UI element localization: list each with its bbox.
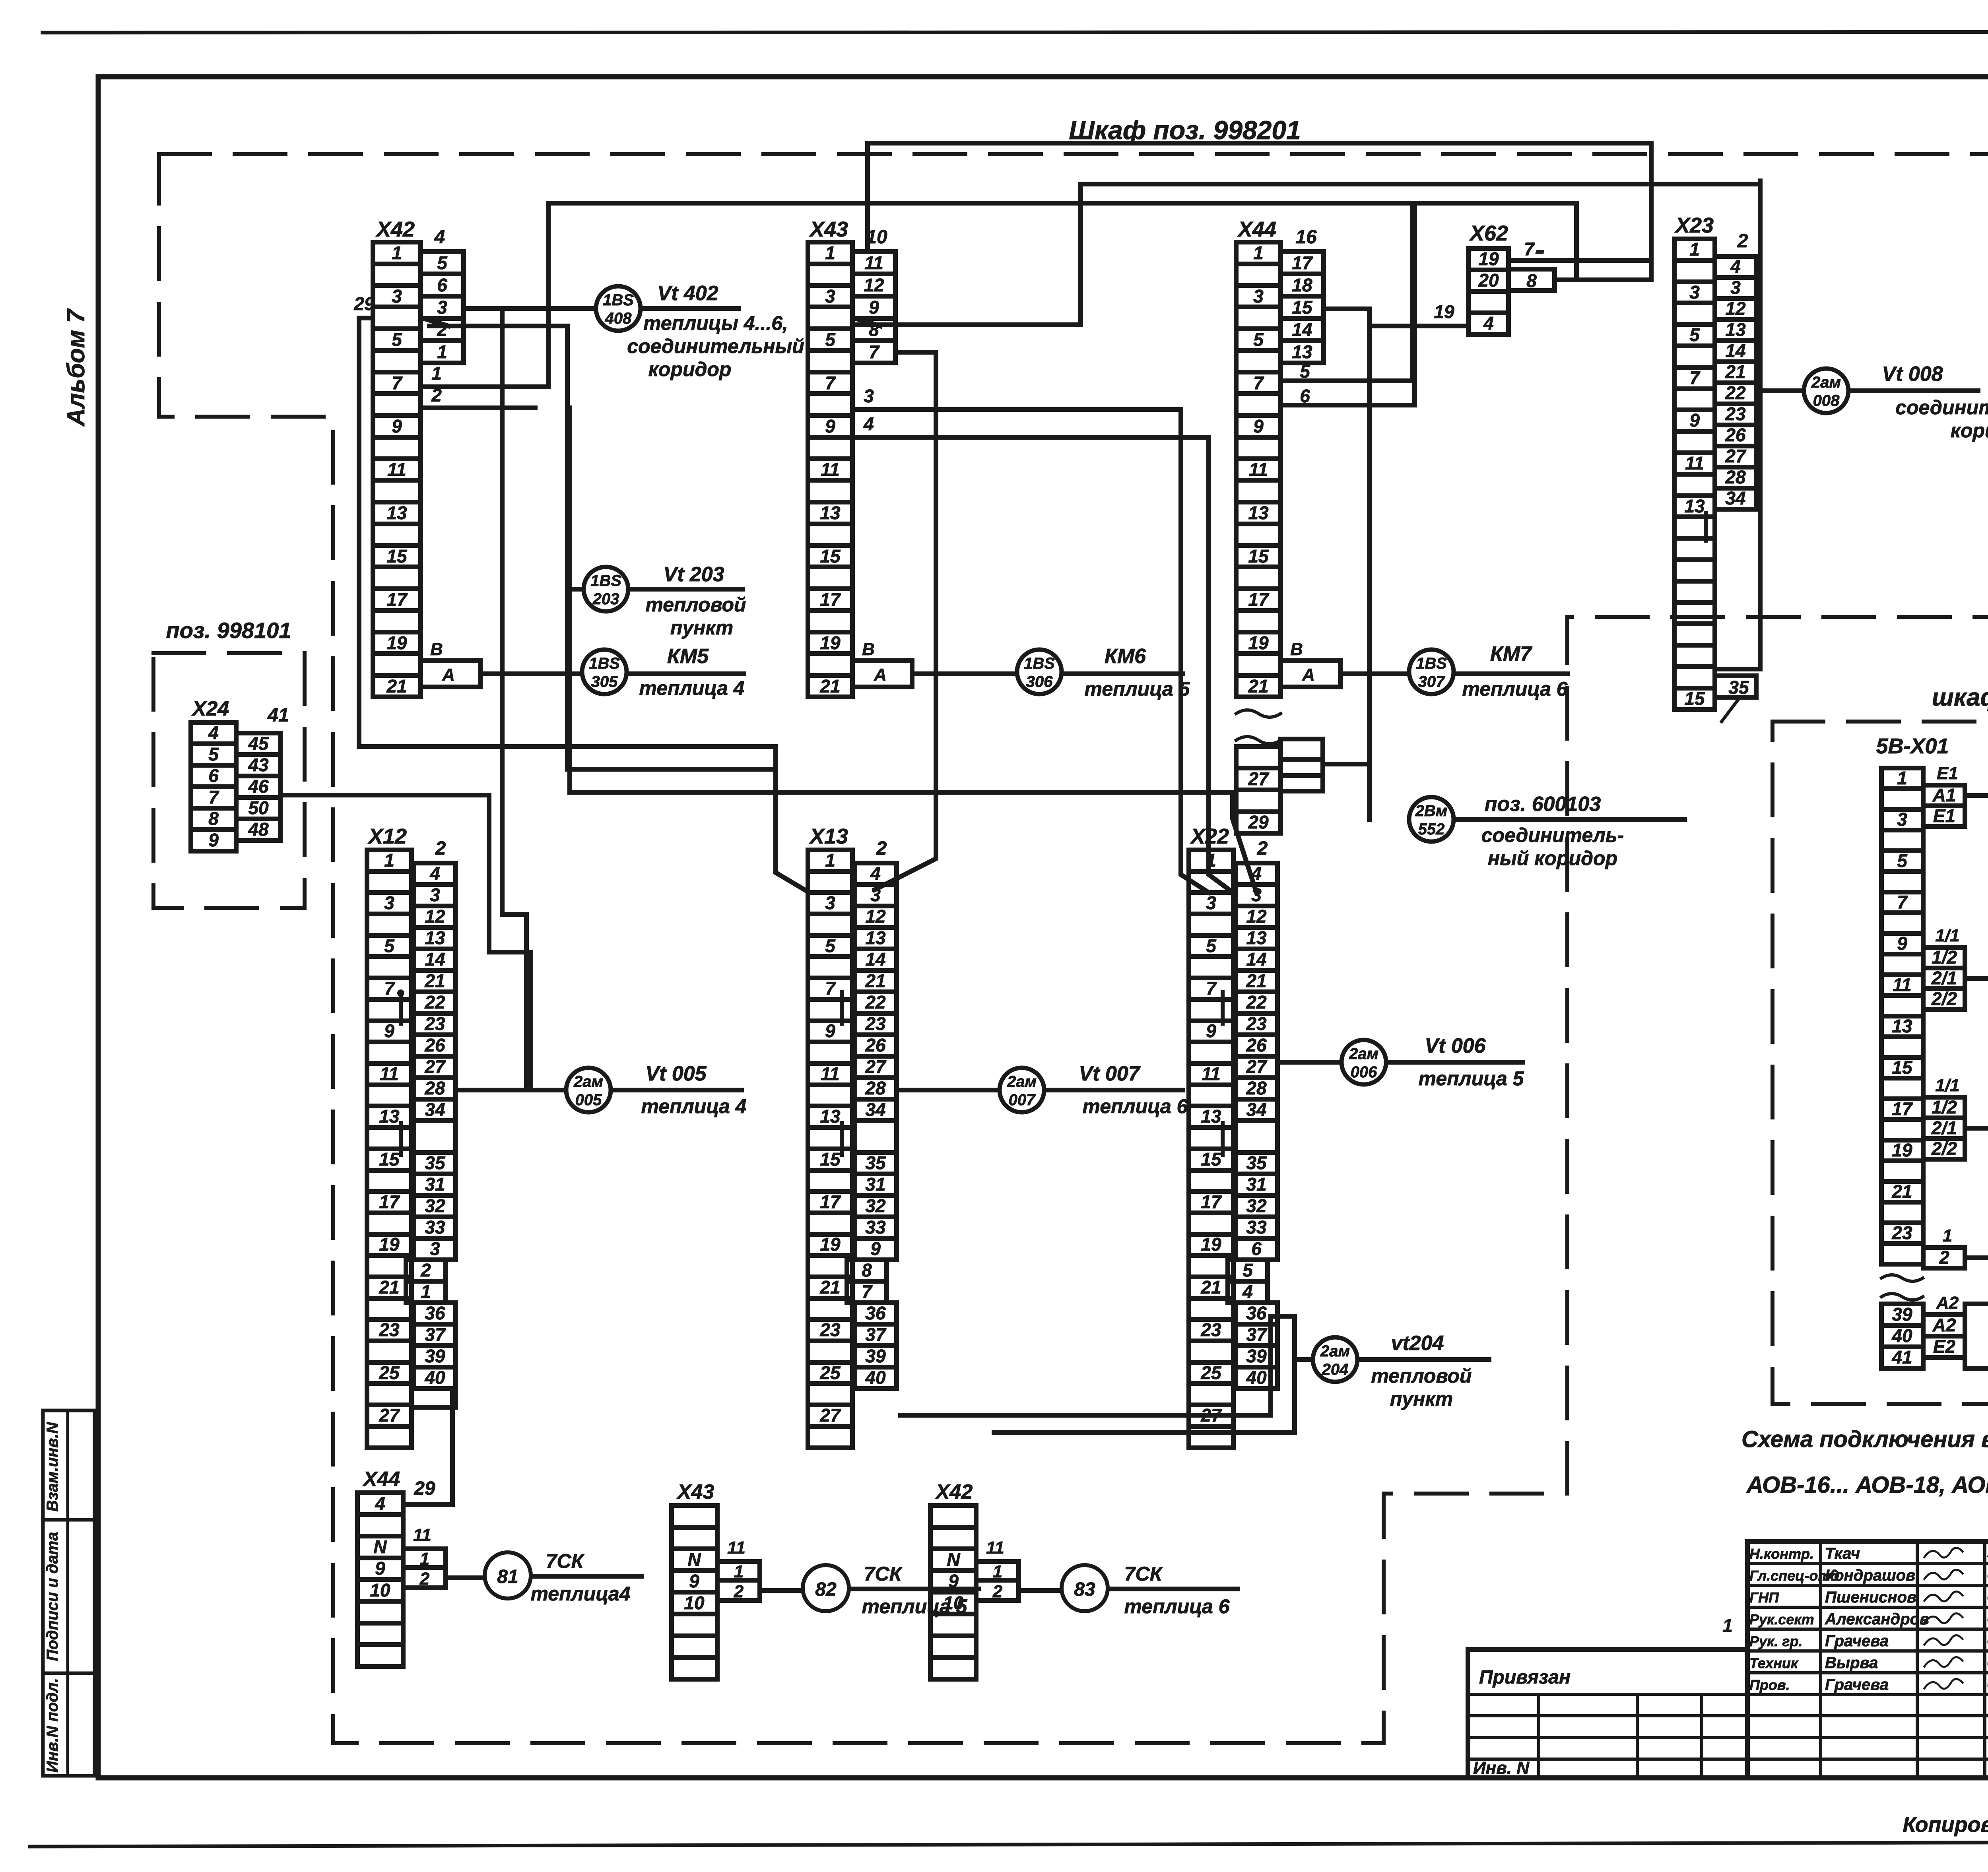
svg-text:83: 83 <box>1074 1579 1095 1600</box>
svg-text:25: 25 <box>819 1362 841 1383</box>
svg-text:В: В <box>430 640 443 659</box>
svg-text:5: 5 <box>1689 324 1700 345</box>
svg-text:7: 7 <box>384 978 395 999</box>
svg-text:5: 5 <box>1253 329 1264 350</box>
svg-text:7: 7 <box>392 372 403 393</box>
svg-text:Рук. гр.: Рук. гр. <box>1749 1633 1803 1649</box>
svg-text:19: 19 <box>820 1234 841 1255</box>
connection circle 2ам008 <box>1804 369 1848 413</box>
svg-text:31: 31 <box>1246 1174 1266 1195</box>
svg-text:34: 34 <box>1246 1099 1266 1120</box>
svg-text:11: 11 <box>821 459 840 480</box>
terminal block X22 left column <box>1189 850 1233 1448</box>
svg-text:Шкаф поз. 998201: Шкаф поз. 998201 <box>1069 115 1301 145</box>
svg-text:19: 19 <box>820 632 841 653</box>
svg-text:9: 9 <box>825 1020 835 1041</box>
X43 bottom connector box 1 2 <box>717 1562 760 1601</box>
svg-text:5: 5 <box>1206 935 1217 956</box>
wire X62 row7 <box>1508 258 1651 263</box>
svg-text:соединительный: соединительный <box>1895 396 1988 419</box>
svg-text:13: 13 <box>1684 496 1705 516</box>
wire riser down to X13 <box>776 747 809 892</box>
svg-text:1: 1 <box>825 850 835 871</box>
wire after 1BS307 and label KM7 <box>1454 642 1568 700</box>
svg-text:23: 23 <box>379 1319 400 1340</box>
svg-text:Взам.инв.N: Взам.инв.N <box>44 1422 61 1511</box>
svg-text:Пшениснов: Пшениснов <box>1825 1589 1916 1606</box>
svg-text:23: 23 <box>1725 403 1746 424</box>
svg-text:2Вм: 2Вм <box>1415 802 1448 820</box>
svg-text:2: 2 <box>435 838 446 859</box>
wire to circle 83 <box>1019 1588 1061 1593</box>
X42 bottom connector box 1 2 <box>976 1562 1019 1601</box>
svg-text:Е1: Е1 <box>1933 805 1955 826</box>
svg-text:4: 4 <box>1730 256 1741 277</box>
svg-text:соединитель-: соединитель- <box>1481 824 1624 846</box>
svg-text:КМ7: КМ7 <box>1490 642 1532 665</box>
svg-text:27: 27 <box>424 1056 446 1077</box>
X23 jumper mark at 13 <box>1704 513 1708 541</box>
svg-text:17: 17 <box>820 589 841 610</box>
svg-text:11: 11 <box>380 1063 399 1084</box>
svg-text:3: 3 <box>430 1238 440 1259</box>
svg-text:X44: X44 <box>362 1468 400 1491</box>
svg-text:12: 12 <box>1725 298 1746 319</box>
wire X12 to 2ам005 <box>456 1088 566 1092</box>
svg-text:11: 11 <box>1685 453 1704 473</box>
wire X12 bottom to 29 riser <box>403 1389 452 1505</box>
svg-text:36: 36 <box>865 1303 886 1323</box>
wire riser from Vt402 wire down left <box>502 308 526 1090</box>
svg-text:12: 12 <box>864 275 884 295</box>
svg-text:28: 28 <box>1725 467 1746 487</box>
svg-text:N: N <box>687 1549 701 1570</box>
svg-text:X22: X22 <box>1190 824 1229 848</box>
svg-text:15: 15 <box>820 1149 841 1170</box>
svg-text:19: 19 <box>1892 1140 1912 1160</box>
X44 bottom connector box 1 2 <box>403 1549 446 1589</box>
svg-text:39: 39 <box>425 1346 445 1366</box>
svg-text:33: 33 <box>865 1217 886 1238</box>
wire after 1BS305 and label KM5 <box>627 645 744 699</box>
wire row 2 of X42 <box>421 385 535 408</box>
svg-text:43: 43 <box>248 755 269 775</box>
svg-text:X13: X13 <box>809 824 848 848</box>
svg-text:45: 45 <box>248 733 269 754</box>
svg-text:203: 203 <box>592 590 619 608</box>
svg-text:36: 36 <box>1246 1303 1267 1323</box>
svg-text:14: 14 <box>1246 949 1266 970</box>
svg-text:25: 25 <box>1200 1362 1222 1383</box>
wire into 1BS203 <box>570 587 583 592</box>
svg-text:8: 8 <box>208 808 219 829</box>
svg-text:13: 13 <box>1725 319 1746 340</box>
X42 twisted pair notch <box>422 318 448 326</box>
svg-text:19: 19 <box>1248 632 1269 653</box>
left margin column boxes <box>43 1410 95 1776</box>
svg-text:X43: X43 <box>809 217 848 241</box>
title block staff names <box>1749 1545 1988 1694</box>
svg-text:14: 14 <box>1292 319 1312 340</box>
X01 right cells group 1/2 2/1 2/2 upper <box>1923 947 1965 1009</box>
wire after 2ам007 and label Vt007 <box>1044 1062 1188 1117</box>
svg-text:7СК: 7СК <box>546 1550 585 1572</box>
wire row 6 of X44 <box>1281 386 1415 406</box>
connection circle 1BS408 <box>596 286 641 331</box>
svg-text:12: 12 <box>1246 906 1267 927</box>
terminal block X13 left column <box>808 850 852 1448</box>
X01 bus connecting stubs <box>1965 795 1988 1258</box>
svg-text:2: 2 <box>734 1582 744 1601</box>
wires X22 bottom routing <box>901 1316 1295 1432</box>
svg-text:21: 21 <box>386 676 407 696</box>
X44 ladder break wavy lines <box>1236 710 1281 717</box>
svg-text:19: 19 <box>386 632 407 653</box>
svg-text:40: 40 <box>1891 1325 1912 1346</box>
connection circle 2ам204 <box>1313 1337 1357 1382</box>
svg-text:X42: X42 <box>935 1480 973 1503</box>
svg-text:35: 35 <box>865 1152 886 1173</box>
svg-text:5: 5 <box>437 252 448 273</box>
svg-text:шкаф поз. 990101: шкаф поз. 990101 <box>1932 684 1988 711</box>
svg-text:11: 11 <box>1202 1063 1221 1084</box>
svg-text:теплица4: теплица4 <box>530 1583 630 1605</box>
wire 29 vertical <box>359 318 776 747</box>
svg-text:21: 21 <box>424 970 445 991</box>
svg-text:Привязан: Привязан <box>1479 1667 1571 1688</box>
svg-text:22: 22 <box>1246 992 1267 1013</box>
svg-text:Е2: Е2 <box>1933 1336 1956 1357</box>
wire X44 cell15 riser to 552 <box>1324 309 1369 819</box>
svg-text:10: 10 <box>684 1593 705 1613</box>
wire X13 to 2ам007 <box>897 1088 999 1092</box>
wire riser to 2ам204 <box>1295 1360 1312 1432</box>
terminal block X42 bottom <box>930 1505 976 1679</box>
svg-text:39: 39 <box>865 1346 886 1366</box>
svg-text:17: 17 <box>1892 1098 1913 1119</box>
svg-text:9: 9 <box>375 1558 385 1579</box>
svg-text:17: 17 <box>820 1191 841 1212</box>
svg-text:1: 1 <box>1897 768 1907 788</box>
connection circle 1BS307 <box>1409 650 1454 694</box>
svg-text:18: 18 <box>1292 275 1312 295</box>
X43 twisted pair notch <box>854 318 880 326</box>
svg-text:1: 1 <box>1206 850 1216 871</box>
svg-text:27: 27 <box>1248 768 1270 789</box>
svg-text:34: 34 <box>865 1099 885 1120</box>
terminal block X24 left column <box>191 722 236 851</box>
svg-text:11: 11 <box>1249 459 1268 480</box>
svg-text:11: 11 <box>821 1063 840 1084</box>
connection circle 1BS305 <box>582 650 627 694</box>
svg-text:Техник: Техник <box>1749 1655 1799 1671</box>
svg-text:Грачева: Грачева <box>1825 1632 1889 1650</box>
svg-text:15: 15 <box>820 546 841 566</box>
svg-text:1: 1 <box>420 1549 429 1569</box>
svg-text:1: 1 <box>1253 242 1264 263</box>
X44 A-B connector box <box>1281 640 1340 687</box>
svg-text:14: 14 <box>1725 340 1745 361</box>
svg-text:27: 27 <box>1246 1056 1268 1077</box>
X44 right column cells 17 18 15 14 13 <box>1281 252 1324 363</box>
svg-text:3: 3 <box>392 286 402 307</box>
svg-text:21: 21 <box>1246 970 1266 991</box>
svg-text:32: 32 <box>1246 1195 1267 1216</box>
svg-text:9: 9 <box>870 1238 881 1259</box>
wire X23 box to 2ам008 <box>1760 388 1804 393</box>
svg-text:5: 5 <box>825 935 836 956</box>
svg-text:Инв. N: Инв. N <box>1473 1758 1530 1778</box>
svg-text:40: 40 <box>865 1367 886 1388</box>
svg-text:21: 21 <box>379 1277 399 1298</box>
svg-text:13: 13 <box>1201 1106 1221 1127</box>
svg-text:Vt 402: Vt 402 <box>657 282 718 305</box>
svg-text:17: 17 <box>1201 1191 1222 1212</box>
wire X42 cell3 to circle 1BS408 <box>464 306 596 311</box>
svg-text:13: 13 <box>865 927 886 948</box>
svg-text:2: 2 <box>1257 838 1268 859</box>
X43 A-B connector box <box>852 640 912 687</box>
svg-text:тепловой: тепловой <box>1371 1365 1472 1387</box>
svg-text:29: 29 <box>1248 812 1269 832</box>
svg-text:1ВS: 1ВS <box>1416 655 1447 672</box>
svg-text:15: 15 <box>1201 1149 1222 1170</box>
svg-text:3: 3 <box>825 892 835 913</box>
svg-text:1ВS: 1ВS <box>603 291 634 309</box>
svg-text:46: 46 <box>248 776 269 797</box>
svg-text:37: 37 <box>865 1324 887 1345</box>
svg-text:1/2: 1/2 <box>1932 1097 1957 1117</box>
X23 right cell 35 <box>1715 676 1756 698</box>
wire row 5 of X44 <box>1281 361 1413 382</box>
svg-text:3: 3 <box>1251 885 1262 905</box>
terminal block X62 <box>1468 248 1508 334</box>
svg-text:21: 21 <box>819 676 840 696</box>
connection circle 2ам007 <box>1000 1068 1044 1112</box>
connection circle 2Вм552 <box>1409 797 1454 842</box>
X12 right column <box>406 863 456 1389</box>
svg-text:1: 1 <box>825 242 835 263</box>
svg-text:2/1: 2/1 <box>1931 968 1957 988</box>
svg-text:23: 23 <box>1246 1013 1267 1034</box>
svg-text:ГНП: ГНП <box>1749 1589 1779 1606</box>
wire after 1BS203 and label Vt203 <box>629 563 746 639</box>
svg-text:11: 11 <box>864 252 883 273</box>
svg-text:23: 23 <box>1200 1319 1221 1340</box>
svg-text:КМ5: КМ5 <box>667 645 709 668</box>
svg-text:7: 7 <box>869 341 880 362</box>
svg-text:3: 3 <box>1206 892 1216 913</box>
svg-text:11: 11 <box>387 459 406 480</box>
svg-text:3: 3 <box>864 386 874 406</box>
svg-text:4: 4 <box>1251 863 1262 884</box>
svg-text:10: 10 <box>943 1593 964 1613</box>
svg-text:13: 13 <box>1292 341 1312 362</box>
svg-text:17: 17 <box>1292 252 1313 273</box>
wire after 81 and label 7СК <box>530 1550 642 1605</box>
wire row 4 of X43 <box>852 413 1209 437</box>
dashed cabinet шкаф поз.990101 outline <box>1773 722 1988 1404</box>
svg-text:22: 22 <box>865 992 886 1013</box>
svg-text:27: 27 <box>865 1056 887 1077</box>
svg-text:552: 552 <box>1418 821 1445 838</box>
svg-text:26: 26 <box>865 1035 886 1055</box>
X01 right column top cells А1 Е1 <box>1923 785 1965 826</box>
svg-text:1: 1 <box>1943 1226 1952 1245</box>
X23 right column cells <box>1715 256 1756 509</box>
svg-text:9: 9 <box>208 830 219 850</box>
svg-text:305: 305 <box>591 673 618 691</box>
wire X44 A box to 1BS307 <box>1340 671 1409 676</box>
svg-text:48: 48 <box>248 819 269 840</box>
svg-text:Пров.: Пров. <box>1749 1677 1790 1693</box>
terminal block X43 bottom <box>672 1505 717 1679</box>
svg-text:Рук.сект: Рук.сект <box>1749 1611 1814 1628</box>
svg-text:204: 204 <box>1322 1361 1349 1378</box>
svg-text:X12: X12 <box>367 824 407 848</box>
X24 right column <box>236 733 280 840</box>
X22 jumper marks <box>1221 992 1225 1155</box>
X01 right cell 2 <box>1923 1247 1965 1268</box>
svg-text:26: 26 <box>1725 425 1746 445</box>
X01 right bottom cells А2 Е2 <box>1923 1315 1965 1358</box>
svg-text:X44: X44 <box>1237 217 1276 241</box>
svg-text:1: 1 <box>993 1562 1002 1581</box>
svg-text:27: 27 <box>819 1405 841 1426</box>
connection circle 2ам006 <box>1342 1040 1386 1084</box>
svg-text:13: 13 <box>425 927 445 948</box>
svg-text:4: 4 <box>870 863 881 884</box>
wire row 1 of X42 <box>421 363 548 387</box>
svg-text:13: 13 <box>820 502 841 523</box>
X23 slash mark <box>1722 700 1738 722</box>
svg-text:X62: X62 <box>1469 221 1508 245</box>
svg-text:Вырва: Вырва <box>1825 1654 1878 1672</box>
svg-text:Подписи и дата: Подписи и дата <box>44 1532 61 1661</box>
svg-text:теплица 4: теплица 4 <box>639 677 745 699</box>
terminal block X42 left column <box>373 242 421 697</box>
svg-text:1: 1 <box>431 363 442 384</box>
svg-text:21: 21 <box>819 1277 840 1298</box>
svg-text:1: 1 <box>384 850 394 871</box>
svg-text:9: 9 <box>689 1571 699 1591</box>
X23 right outer box <box>1715 181 1760 669</box>
svg-text:35: 35 <box>425 1152 446 1173</box>
svg-text:6: 6 <box>208 765 219 786</box>
svg-text:Vt 008: Vt 008 <box>1882 363 1943 386</box>
svg-text:27: 27 <box>379 1405 400 1426</box>
svg-text:9: 9 <box>869 297 879 318</box>
svg-text:Схема подключения выполнена: Схема подключения выполнена на основании… <box>1741 1426 1988 1452</box>
svg-text:34: 34 <box>1725 488 1745 508</box>
left title attachment box Привязан <box>1468 1649 1747 1778</box>
svg-text:33: 33 <box>425 1217 445 1238</box>
svg-text:В: В <box>862 640 875 659</box>
svg-text:26: 26 <box>1246 1035 1267 1055</box>
svg-text:17: 17 <box>386 589 408 610</box>
svg-text:5: 5 <box>1897 850 1908 871</box>
svg-text:соединительный: соединительный <box>627 335 804 357</box>
X12 jumper marks <box>397 989 404 1155</box>
svg-text:3: 3 <box>384 892 394 913</box>
svg-text:37: 37 <box>1246 1324 1268 1345</box>
svg-text:29: 29 <box>353 293 375 314</box>
svg-text:7: 7 <box>1689 367 1701 388</box>
svg-text:19: 19 <box>1478 248 1499 269</box>
svg-text:29: 29 <box>414 1478 435 1499</box>
svg-text:5В-Х01: 5В-Х01 <box>1876 734 1949 758</box>
svg-text:15: 15 <box>386 546 408 566</box>
svg-text:13: 13 <box>820 1106 841 1127</box>
svg-text:35: 35 <box>1728 677 1749 698</box>
svg-text:40: 40 <box>1246 1367 1267 1388</box>
svg-text:7: 7 <box>1897 892 1908 912</box>
svg-text:81: 81 <box>497 1566 518 1587</box>
wire to circle 82 <box>760 1588 802 1593</box>
svg-text:АОВ-16... АОВ-18, АОВ-36, А: АОВ-16... АОВ-18, АОВ-36, АОВ-37 <box>1746 1472 1988 1498</box>
wire X43 row3 riser <box>1181 409 1209 892</box>
X01 break wavy lines <box>1881 1275 1923 1281</box>
svg-text:теплица 5: теплица 5 <box>1419 1067 1524 1090</box>
connection circle 83 <box>1062 1565 1108 1611</box>
svg-text:Н.контр.: Н.контр. <box>1749 1546 1814 1562</box>
svg-text:ный коридор: ный коридор <box>1488 847 1617 869</box>
wire after 1BS408 and label Vt402 <box>627 282 804 380</box>
svg-text:теплица 5: теплица 5 <box>1085 678 1190 700</box>
svg-text:33: 33 <box>1246 1217 1267 1238</box>
svg-text:11: 11 <box>727 1538 745 1558</box>
svg-text:5: 5 <box>208 744 219 764</box>
svg-text:7СК: 7СК <box>1124 1563 1163 1585</box>
terminal block 5В-Х01 left column <box>1881 768 1923 1264</box>
X01 right cells group 1/2 2/1 2/2 lower <box>1923 1097 1965 1159</box>
svg-text:коридор: коридор <box>648 358 732 380</box>
svg-text:X42: X42 <box>375 217 415 241</box>
svg-text:4: 4 <box>434 227 445 248</box>
svg-text:2: 2 <box>431 385 442 405</box>
svg-text:1: 1 <box>734 1562 744 1581</box>
svg-text:307: 307 <box>1418 673 1445 691</box>
terminal block X44 bottom <box>357 1493 403 1666</box>
svg-text:15: 15 <box>379 1149 400 1170</box>
svg-text:28: 28 <box>1246 1078 1267 1098</box>
title block staff table <box>1747 1542 1988 1778</box>
wire bus A left riser to X43 notch <box>855 184 1081 325</box>
svg-text:4: 4 <box>375 1493 385 1514</box>
wire after 2ам005 and label Vt005 <box>611 1062 746 1117</box>
svg-text:1/1: 1/1 <box>1935 1076 1959 1095</box>
wire after 82 and label 7СК <box>850 1563 978 1618</box>
svg-text:Vt 203: Vt 203 <box>663 563 724 586</box>
wire after 83 and label 7СК <box>1109 1563 1237 1618</box>
svg-text:13: 13 <box>1892 1016 1912 1036</box>
svg-text:21: 21 <box>1891 1181 1912 1202</box>
svg-text:3: 3 <box>1897 809 1907 830</box>
svg-text:27: 27 <box>1725 446 1747 466</box>
terminal block X23 left column <box>1674 239 1715 710</box>
svg-text:X23: X23 <box>1674 213 1714 237</box>
svg-text:4: 4 <box>1242 1281 1253 1302</box>
svg-text:9: 9 <box>1689 410 1700 431</box>
svg-text:теплица 6: теплица 6 <box>1462 678 1568 700</box>
svg-text:11: 11 <box>1893 974 1912 995</box>
wire after 2ам204 and label vt204 <box>1358 1332 1489 1410</box>
svg-text:7: 7 <box>825 372 836 393</box>
connection circle 81 <box>485 1552 531 1598</box>
svg-text:21: 21 <box>865 970 885 991</box>
svg-text:14: 14 <box>865 949 885 970</box>
svg-text:306: 306 <box>1026 673 1053 691</box>
